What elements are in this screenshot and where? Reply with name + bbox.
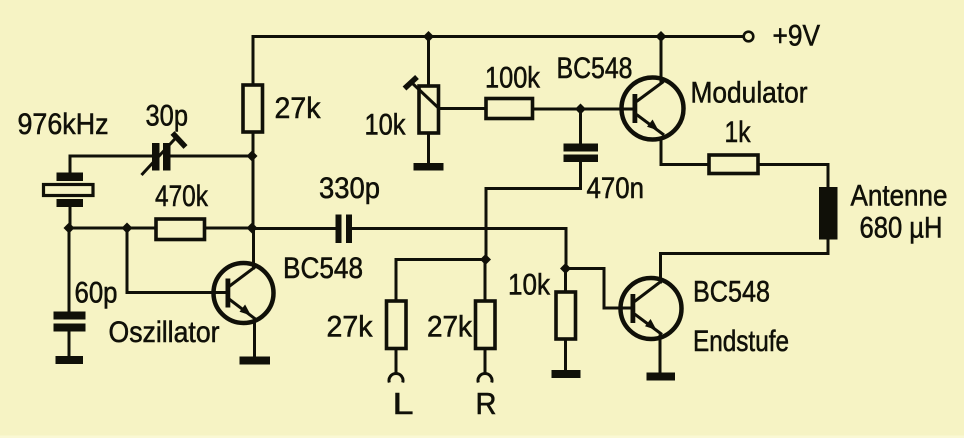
svg-text:Endstufe: Endstufe [693, 325, 789, 358]
wire L resistor to jack [395, 349, 398, 372]
ground (pot 10k) [414, 163, 444, 171]
wire feedback to base Q1 [127, 228, 226, 293]
resistor 100k [486, 99, 533, 119]
wire Q2 collector to rail [660, 37, 663, 83]
svg-text:L: L [393, 387, 414, 421]
resistor 1k [709, 155, 758, 174]
svg-text:470k: 470k [155, 180, 209, 213]
svg-text:30p: 30p [146, 100, 189, 133]
wire 470n bottom to audio node [486, 162, 581, 260]
resistor 10k bias [556, 292, 576, 339]
wire 470n top [579, 109, 582, 144]
node: collector node [247, 223, 258, 234]
svg-text:BC548: BC548 [283, 252, 363, 285]
node: audio summing junction [480, 254, 491, 265]
wire R resistor to jack [484, 349, 487, 372]
svg-text:27k: 27k [275, 92, 322, 125]
svg-text:BC548: BC548 [693, 276, 770, 309]
wire 470k right to collector node [205, 227, 253, 230]
svg-text:R: R [476, 387, 497, 421]
svg-text:680 µH: 680 µH [860, 212, 943, 245]
node: rail/pot junction [423, 31, 434, 42]
wire trimmer to node A [171, 155, 254, 158]
wire Q3 collector [661, 240, 829, 283]
svg-text:+9V: +9V [773, 19, 821, 52]
connector jack L [389, 373, 403, 382]
potentiometer 10k body [419, 86, 439, 133]
svg-text:Oszillator: Oszillator [109, 316, 220, 349]
terminal +9V [744, 32, 754, 42]
svg-text:976kHz: 976kHz [18, 108, 109, 141]
wire R resistor top [484, 260, 487, 302]
wire antenna top to 1k [758, 165, 828, 188]
svg-text:BC548: BC548 [557, 52, 633, 85]
wire node B to Q3 base [566, 269, 631, 309]
resistor R1 27k (oscillator load) [243, 85, 263, 132]
node: Q3 base junction [560, 263, 571, 274]
svg-text:Modulator: Modulator [691, 76, 808, 109]
svg-text:1k: 1k [725, 116, 752, 149]
wire L to audio node [396, 258, 486, 261]
connector jack R [478, 373, 492, 382]
wire 330p right to node B [352, 229, 566, 269]
wire crystal bottom [69, 207, 72, 228]
wire pot wiper to 100k [439, 107, 487, 110]
svg-text:Antenne: Antenne [851, 180, 948, 213]
capacitor 60p [54, 312, 86, 332]
wire base net y228 [69, 227, 156, 230]
wire rail to R27k top [252, 37, 255, 86]
wire Q2 base from 100k [533, 108, 633, 111]
wire 1k to Q2 emitter [661, 138, 709, 165]
capacitor 470n [564, 144, 599, 163]
wire top rail +9V [253, 35, 744, 38]
svg-text:27k: 27k [327, 310, 374, 343]
ground (10k bias) [552, 370, 581, 378]
transistor Q1 BC548 Oszillator [214, 263, 274, 323]
svg-text:100k: 100k [485, 61, 541, 94]
ground (Q3 emitter) [647, 373, 676, 381]
svg-text:10k: 10k [508, 269, 551, 302]
capacitor 330p [336, 215, 353, 244]
svg-text:470n: 470n [587, 172, 645, 205]
resistor 470k [156, 219, 205, 240]
wire Q3 emitter to ground [659, 336, 662, 373]
trimmer capacitor 30p [152, 143, 171, 171]
node: Q2 base junction [575, 104, 586, 115]
wire rail to pot [427, 37, 430, 87]
transistor Q3 BC548 Endstufe [621, 278, 682, 339]
resistor 27k R input [476, 301, 496, 349]
ground (Q1 emitter) [240, 357, 271, 365]
node: crystal bottom junction [64, 223, 75, 234]
wire Q1 collector [252, 228, 255, 268]
antenna coil 680uH [819, 187, 838, 240]
potentiometer 10k wiper arrow [405, 77, 439, 108]
wire R27k bottom to collector node [252, 132, 255, 228]
wire crystal top to trimmer [70, 156, 152, 173]
node: collector/trimmer junction [247, 151, 258, 162]
svg-text:10k: 10k [365, 108, 407, 141]
svg-text:60p: 60p [75, 276, 118, 309]
wire Q1 emitter to ground [253, 320, 256, 358]
crystal 976kHz [57, 173, 84, 208]
wire L resistor top [395, 260, 398, 302]
svg-text:27k: 27k [427, 310, 473, 343]
transistor Q2 BC548 Modulator [622, 78, 684, 140]
ground (60p) [56, 356, 84, 364]
node: rail/Q2 collector junction [656, 31, 667, 42]
wire node B to 10k bias [564, 269, 567, 293]
svg-text:330p: 330p [319, 172, 380, 205]
wire 330p left [252, 227, 336, 230]
wire pot to ground [427, 133, 430, 164]
wire 60p top [68, 228, 71, 312]
wire 10k bias to ground [564, 339, 567, 370]
node: feedback junction [122, 223, 133, 234]
resistor 27k L input [387, 301, 407, 349]
wire 60p to ground [68, 332, 71, 358]
